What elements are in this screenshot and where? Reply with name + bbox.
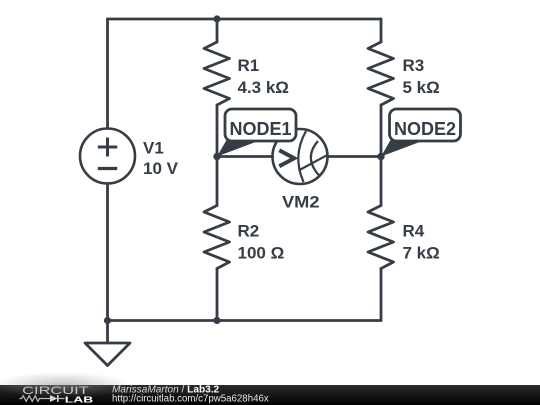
resistor R4 <box>368 206 394 269</box>
svg-text:10 V: 10 V <box>143 159 179 178</box>
svg-text:NODE2: NODE2 <box>394 119 456 139</box>
label R3 value <box>403 56 440 97</box>
label R4 value <box>403 222 440 263</box>
footer title text <box>112 385 269 405</box>
node NODE1 dot <box>213 153 220 160</box>
node junction dot top <box>213 15 220 22</box>
node NODE2 callout <box>381 109 461 157</box>
wire right mid <box>380 105 383 206</box>
wire middle bottom <box>216 269 219 321</box>
wire ground stub <box>106 321 109 344</box>
svg-text:NODE1: NODE1 <box>229 119 291 139</box>
voltage source V1 <box>80 129 135 184</box>
wire right bottom <box>380 269 383 321</box>
ground <box>85 343 130 366</box>
svg-text:R2: R2 <box>238 222 260 241</box>
svg-text:V1: V1 <box>143 138 164 157</box>
label R1 value <box>238 56 289 97</box>
resistor R3 <box>368 42 394 105</box>
svg-text:R4: R4 <box>403 222 425 241</box>
node junction dot bottom middle <box>213 317 220 324</box>
svg-text:R3: R3 <box>403 56 425 75</box>
wire middle top <box>216 19 219 42</box>
node NODE1 callout <box>217 109 296 157</box>
node junction dot bottom left <box>104 317 111 324</box>
svg-text:R1: R1 <box>238 56 260 75</box>
svg-text:4.3 kΩ: 4.3 kΩ <box>238 78 289 97</box>
wire left upper <box>106 19 109 129</box>
svg-text:http://circuitlab.com/c7pw5a62: http://circuitlab.com/c7pw5a628h46x <box>112 394 269 405</box>
label V1 value <box>143 138 179 178</box>
label R2 value <box>238 222 285 263</box>
resistor R1 <box>204 42 230 105</box>
svg-text:5 kΩ: 5 kΩ <box>403 78 440 97</box>
logo CircuitLab <box>20 385 94 404</box>
wire left lower <box>106 184 109 321</box>
node NODE2 dot <box>377 153 384 160</box>
wire top rail <box>108 18 382 21</box>
svg-text:100 Ω: 100 Ω <box>238 244 285 263</box>
svg-text:VM2: VM2 <box>282 193 320 212</box>
wire bottom rail <box>108 319 382 322</box>
svg-text:7 kΩ: 7 kΩ <box>403 244 440 263</box>
voltmeter VM2 <box>273 129 328 184</box>
resistor R2 <box>204 206 230 269</box>
wire node1 to voltmeter <box>217 155 273 158</box>
wire voltmeter to node2 <box>328 155 382 158</box>
wire middle mid <box>216 105 219 206</box>
wire right top <box>380 19 383 42</box>
footer bar <box>0 372 540 405</box>
svg-text:LAB: LAB <box>65 394 94 404</box>
